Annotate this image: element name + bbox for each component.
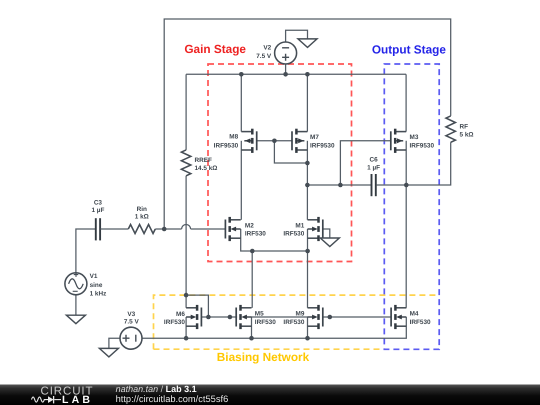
transistor M4 IRF530: [391, 305, 406, 329]
junction M7 gate-drain tie: [305, 161, 310, 166]
ground for V2: [298, 39, 317, 48]
junction output node / M3 gate feedback: [338, 183, 343, 188]
wire M3 gate feedback: [340, 141, 390, 185]
svg-text:sine: sine: [90, 282, 103, 289]
red dashed box: Gain Stage: [208, 64, 352, 262]
svg-text:M1: M1: [295, 223, 304, 230]
svg-text:7.5 V: 7.5 V: [256, 53, 272, 60]
svg-text:14.5 kΩ: 14.5 kΩ: [195, 165, 218, 172]
svg-text:1 µF: 1 µF: [367, 164, 380, 171]
svg-text:IRF9530: IRF9530: [214, 142, 239, 149]
wire M7 drain from rail: [306, 74, 308, 131]
wire M3 drain from rail corner: [405, 74, 407, 131]
svg-text:7.5 V: 7.5 V: [124, 319, 140, 326]
svg-text:LAB: LAB: [62, 394, 93, 405]
ground for M1 gate: [320, 238, 339, 247]
wire output row right of C6: [376, 184, 406, 186]
wire M8 drain from rail: [240, 74, 242, 131]
svg-text:IRF530: IRF530: [255, 319, 276, 326]
capacitor C6: [371, 174, 373, 196]
junction V+ rail / M8 drain: [239, 72, 244, 77]
wire M6 drain: [185, 295, 187, 308]
wire RREF bottom with hop over input row: [185, 176, 187, 295]
wire RREF branch top: [185, 74, 187, 150]
transistor M6 IRF530: [186, 305, 201, 329]
junction ground rail / M5 source: [249, 336, 254, 341]
svg-text:V2: V2: [263, 44, 271, 51]
svg-text:M6: M6: [176, 311, 185, 318]
transistor M8 IRF9530: [241, 129, 256, 153]
wire M7 source down through tie and output dots to M1 drain: [306, 141, 308, 220]
footer logo waveform glyph: [32, 396, 62, 403]
source V1 sine: [65, 273, 87, 295]
svg-text:M9: M9: [296, 311, 305, 318]
wire M9 source: [307, 317, 309, 338]
svg-text:Rin: Rin: [137, 206, 147, 213]
junction bias gate rail / M5 gate: [228, 315, 233, 320]
wire M5 terminal to M9 terminal: [252, 316, 308, 318]
svg-text:IRF530: IRF530: [283, 231, 304, 238]
wire V1 bottom to ground: [75, 295, 77, 315]
wire M4 source to bottom rail corner: [142, 317, 406, 338]
blue dashed box: Output Stage: [384, 64, 439, 349]
wire M2 source to row: [241, 229, 308, 251]
svg-text:C3: C3: [94, 199, 103, 206]
transistor M7 IRF9530: [292, 129, 307, 153]
junction output node / M3 source / M4 drain: [404, 183, 409, 188]
capacitor C3: [95, 218, 97, 240]
transistor M1 IRF530: [308, 217, 323, 241]
wire V3 left to ground: [109, 338, 120, 348]
svg-text:RF: RF: [460, 124, 469, 131]
junction M8-M7 gate tie: [272, 139, 277, 144]
wire C3 to Rin: [101, 228, 129, 230]
transistor M5 IRF530: [236, 305, 251, 329]
junction output node / M7 drain: [305, 183, 310, 188]
svg-text:RREF: RREF: [195, 157, 212, 164]
svg-text:IRF9530: IRF9530: [310, 142, 335, 149]
junction bias gate rail / M6 tie: [206, 315, 211, 320]
wire M8 source to M2 drain: [240, 141, 242, 220]
svg-text:IRF530: IRF530: [164, 319, 185, 326]
svg-text:1 kHz: 1 kHz: [90, 291, 107, 298]
resistor RF: [446, 116, 455, 142]
source V2: [275, 42, 297, 64]
junction ground rail / M6 source: [184, 336, 189, 341]
junction ground rail / M9 source: [305, 336, 310, 341]
wire M5 drain from row: [251, 251, 253, 308]
wire M1 source down to row and M9 drain: [307, 229, 309, 308]
svg-text:IRF530: IRF530: [283, 319, 304, 326]
svg-text:Biasing Network: Biasing Network: [217, 350, 310, 364]
wire M3 source to output dot to M4 drain: [405, 141, 407, 308]
wire output row left of C6: [307, 184, 371, 186]
svg-text:M5: M5: [255, 311, 264, 318]
wire feedback loop: left vertical + top rail + right down to RF: [164, 19, 451, 229]
svg-text:nathan.tan / Lab 3.1: nathan.tan / Lab 3.1: [116, 384, 197, 394]
svg-text:http://circuitlab.com/ct55sf6: http://circuitlab.com/ct55sf6: [116, 394, 229, 404]
svg-text:IRF530: IRF530: [245, 231, 266, 238]
junction summing node Rin-RF-M2 gate: [162, 227, 167, 232]
wire gate-drain tie M7: [274, 141, 307, 163]
junction M6 drain-gate tie / RREF: [184, 293, 189, 298]
wire biasing gate row M6-M5: [202, 316, 238, 318]
wire V2 top to ground: [286, 30, 308, 42]
svg-text:M7: M7: [310, 134, 319, 141]
svg-text:Output Stage: Output Stage: [372, 43, 446, 57]
wire input row: V1 to C3: [76, 229, 95, 273]
wire M1 gate to ground: [323, 229, 330, 238]
transistor M2 IRF530: [225, 217, 240, 241]
svg-text:V1: V1: [90, 273, 98, 280]
svg-text:1 kΩ: 1 kΩ: [135, 213, 149, 220]
resistor Rin: [128, 225, 155, 234]
wire biasing gate row M9-M4: [323, 316, 391, 318]
svg-text:M8: M8: [229, 134, 238, 141]
ground for V1: [66, 315, 85, 324]
svg-text:M3: M3: [410, 134, 419, 141]
resistor RREF: [181, 150, 190, 176]
wire M6 diode tie: [186, 295, 208, 317]
svg-text:V3: V3: [127, 311, 135, 318]
ground for V3: [99, 348, 118, 357]
wire RF bottom to output row: [406, 142, 450, 185]
junction V+ rail / V2 positive terminal: [283, 72, 288, 77]
transistor M9 IRF530: [308, 305, 323, 329]
wire M6 source: [185, 317, 187, 338]
wire M5 source: [251, 317, 253, 338]
wire supply rail y=74.3: [186, 73, 406, 75]
junction tail node / M1 source: [305, 249, 310, 254]
svg-text:IRF9530: IRF9530: [410, 142, 435, 149]
svg-text:Gain Stage: Gain Stage: [184, 42, 246, 56]
wire Rin to M2 gate: [155, 228, 181, 230]
svg-text:1 µF: 1 µF: [91, 207, 104, 214]
wire V2 bottom: [285, 64, 287, 74]
svg-text:C6: C6: [370, 157, 379, 164]
junction bias gate rail / M9 gate: [328, 315, 333, 320]
svg-text:5 kΩ: 5 kΩ: [460, 132, 474, 139]
junction tail node / M5 drain: [250, 249, 255, 254]
source V3: [120, 327, 142, 349]
transistor M3 IRF9530: [391, 129, 406, 153]
svg-text:IRF530: IRF530: [410, 319, 431, 326]
junction V+ rail / M7 source: [305, 72, 310, 77]
yellow dashed box: Biasing Network: [154, 295, 440, 349]
svg-text:M4: M4: [410, 310, 419, 317]
svg-text:M2: M2: [245, 223, 254, 230]
wire gate tie M8-M7: [257, 140, 292, 142]
